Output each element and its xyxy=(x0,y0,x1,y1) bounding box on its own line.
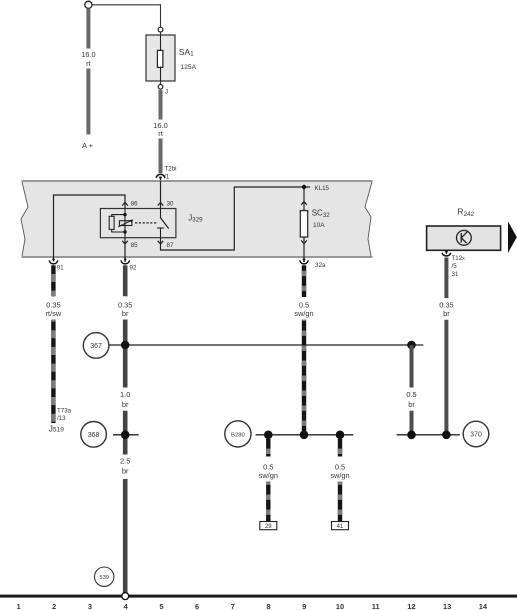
connector T12x below R242 xyxy=(445,250,447,251)
wire 0.35 rt/sw col2 upper xyxy=(51,265,55,296)
svg-text:/13: /13 xyxy=(57,415,66,422)
wire row B stub at col4 xyxy=(113,434,139,436)
svg-text:368: 368 xyxy=(88,432,100,439)
wire SC32 column xyxy=(303,187,305,211)
relay coil xyxy=(109,216,114,229)
ground node circle col4 xyxy=(122,593,129,600)
junction dot col4 row A xyxy=(121,341,130,350)
wire 86 branch to 91 xyxy=(54,195,126,257)
node 367 circle xyxy=(83,333,109,359)
svg-text:10: 10 xyxy=(336,602,344,610)
wire 16.0 rt below SA1 xyxy=(159,90,163,120)
svg-text:9: 9 xyxy=(302,602,306,610)
terminal 87 chevron xyxy=(158,241,164,244)
svg-text:R242: R242 xyxy=(457,207,474,218)
svg-text:rt/sw: rt/sw xyxy=(46,309,62,318)
panel band xyxy=(21,181,372,257)
wire 87 to KL15 xyxy=(161,187,311,250)
svg-text:rt: rt xyxy=(86,59,91,68)
svg-text:87: 87 xyxy=(167,242,174,249)
svg-text:SA1: SA1 xyxy=(179,47,194,58)
svg-text:13: 13 xyxy=(443,602,451,610)
fuse SA1 xyxy=(158,27,163,32)
wire 0.35 br col4 xyxy=(123,265,128,296)
node KL15 xyxy=(302,185,306,189)
relay switch contact xyxy=(160,209,162,218)
junction dot col4 row B xyxy=(121,431,130,440)
node A+ terminal circle xyxy=(85,1,92,8)
svg-text:4: 4 xyxy=(124,602,129,610)
node B280 circle xyxy=(225,421,251,447)
svg-text:1.0: 1.0 xyxy=(120,390,130,399)
wire 0.5 br col12 xyxy=(410,345,414,388)
wire xyxy=(159,139,163,174)
wire 0.5 sw/gn col8 stub xyxy=(266,439,270,457)
arrow continuation right xyxy=(508,221,517,253)
svg-text:T73a: T73a xyxy=(57,407,72,414)
svg-text:br: br xyxy=(122,309,129,318)
wire row B left horizontal xyxy=(256,434,354,436)
svg-text:6: 6 xyxy=(195,602,199,610)
svg-text:br: br xyxy=(122,400,129,409)
continuation box 29 xyxy=(260,522,277,530)
wire row B right horizontal xyxy=(397,434,460,436)
svg-text:sw/gn: sw/gn xyxy=(294,309,313,318)
svg-text:8: 8 xyxy=(266,602,270,610)
terminal 85 chevron xyxy=(122,241,128,244)
svg-text:KL15: KL15 xyxy=(315,185,330,192)
svg-text:A +: A + xyxy=(82,141,94,150)
svg-text:29: 29 xyxy=(265,524,272,530)
node 370 circle xyxy=(463,421,489,447)
wire col4 to ground xyxy=(123,479,128,593)
svg-text:125A: 125A xyxy=(181,64,197,71)
svg-text:7: 7 xyxy=(231,602,235,610)
connector T2bi /1 at V1 xyxy=(156,174,165,177)
R242 motor symbol xyxy=(457,230,472,245)
ground rail xyxy=(0,595,517,598)
wire xyxy=(86,69,90,135)
svg-text:1: 1 xyxy=(16,602,20,610)
svg-text:br: br xyxy=(122,467,129,476)
wire 16.0 rt left branch xyxy=(86,8,90,48)
wire top horizontal from A+ to SA1 xyxy=(92,5,161,27)
junction dot col10 row B xyxy=(336,431,345,440)
svg-text:0.5: 0.5 xyxy=(406,390,416,399)
svg-text:/5: /5 xyxy=(452,263,458,270)
svg-text:rt: rt xyxy=(158,129,163,138)
continuation box 41 xyxy=(332,522,349,530)
svg-text:14: 14 xyxy=(479,602,488,610)
svg-text:5: 5 xyxy=(159,602,163,610)
wire 0.5 sw/gn col10 stub xyxy=(338,439,342,457)
svg-text:367: 367 xyxy=(90,343,102,350)
wire 0.5 sw/gn col9 xyxy=(302,265,306,297)
connector exit 92 xyxy=(124,257,126,259)
svg-text:92: 92 xyxy=(130,265,137,272)
svg-text:B280: B280 xyxy=(231,432,245,438)
wire 0.35 br col13 xyxy=(444,258,448,299)
svg-text:370: 370 xyxy=(470,432,482,439)
wire row A horizontal xyxy=(109,344,423,346)
svg-text:sw/gn: sw/gn xyxy=(330,471,349,480)
terminal 30 chevron xyxy=(158,202,164,205)
svg-text:/1: /1 xyxy=(164,173,170,180)
svg-text:sw/gn: sw/gn xyxy=(259,471,278,480)
svg-text:85: 85 xyxy=(131,242,138,249)
wire col4 to node 368 xyxy=(123,411,128,455)
svg-text:86: 86 xyxy=(131,200,138,207)
node 368 circle xyxy=(81,422,107,448)
junction dot col8 row B xyxy=(264,431,273,440)
svg-text:91: 91 xyxy=(57,265,64,272)
svg-text:41: 41 xyxy=(337,524,344,530)
svg-text:2.5: 2.5 xyxy=(120,457,130,466)
junction dot col12 row B xyxy=(407,431,416,440)
fuse SC32 xyxy=(301,202,307,205)
track numbers xyxy=(16,602,487,610)
relay armature xyxy=(119,221,131,226)
mechanical link dashed xyxy=(135,222,158,224)
junction dot col12 row A xyxy=(407,341,416,350)
svg-text:J519: J519 xyxy=(49,423,65,433)
svg-text:11: 11 xyxy=(372,602,380,610)
svg-text:32a: 32a xyxy=(315,262,326,269)
svg-text:br: br xyxy=(408,400,415,409)
wire rt/sw col2 lower xyxy=(51,320,55,424)
node 539 circle xyxy=(95,567,114,586)
svg-text:30: 30 xyxy=(167,200,174,207)
wire V1 to terminal 30 xyxy=(160,181,162,209)
svg-text:539: 539 xyxy=(99,575,109,581)
connector exit 91 xyxy=(53,257,55,259)
relay J329 box xyxy=(100,209,175,238)
svg-text:31: 31 xyxy=(452,271,459,278)
wire 85 to 92 exit xyxy=(124,238,126,262)
terminal 86 chevron xyxy=(122,202,128,205)
junction dot col9 row B xyxy=(300,431,309,440)
svg-text:br: br xyxy=(443,309,450,318)
svg-text:T12x: T12x xyxy=(452,255,466,262)
svg-text:3: 3 xyxy=(88,602,92,610)
svg-text:T2bi: T2bi xyxy=(165,166,177,173)
svg-text:2: 2 xyxy=(52,602,56,610)
svg-text:12: 12 xyxy=(407,602,415,610)
svg-text:J: J xyxy=(165,88,168,95)
svg-text:10A: 10A xyxy=(313,222,325,229)
junction dot col13 row B xyxy=(442,431,451,440)
connector exit 32a xyxy=(303,257,305,259)
